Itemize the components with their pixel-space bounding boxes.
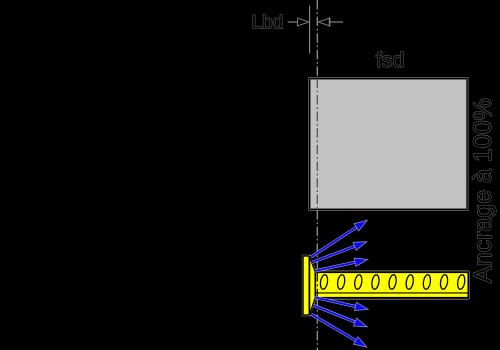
dimension arrowhead left xyxy=(298,18,310,26)
anchor cone halo xyxy=(309,255,316,271)
dimension arrowhead right xyxy=(318,18,329,26)
force arrow 5 head xyxy=(353,318,367,327)
rib coil 1 xyxy=(319,274,328,289)
force arrow 1 head xyxy=(354,220,367,231)
centerline (dash-dot axis) upper segment xyxy=(316,0,318,79)
force arrow 4 head xyxy=(355,302,369,310)
svg-text:Ancrage à 100%: Ancrage à 100% xyxy=(469,98,497,283)
force arrow 6 head xyxy=(354,337,367,347)
rib coil 8 xyxy=(440,274,449,289)
rebar inner line xyxy=(316,292,468,294)
rebar halo top xyxy=(316,270,469,272)
force arrow 2 shaft xyxy=(312,246,356,263)
centerline segment over block xyxy=(316,79,318,211)
rebar halo bottom xyxy=(316,298,469,300)
force arrow 3 head xyxy=(354,258,368,266)
rib coil 4 xyxy=(371,274,380,289)
force arrow 3 shaft xyxy=(315,262,357,271)
force arrow 1 shaft xyxy=(311,226,358,257)
dimension leader left xyxy=(288,21,299,23)
force arrow 2 head xyxy=(353,242,367,251)
anchor plate halo xyxy=(302,255,310,316)
centerline bottom segment xyxy=(316,298,318,350)
anchor plate xyxy=(303,256,309,315)
centerline segment below block xyxy=(316,210,318,272)
centerline segment over bar xyxy=(316,272,318,297)
force arrow 5 shaft xyxy=(313,305,357,323)
rib coil 7 xyxy=(422,274,431,289)
svg-text:fsd: fsd xyxy=(376,48,405,72)
anchor cone (trapezoid) xyxy=(310,256,316,315)
dimension tick right xyxy=(329,17,331,26)
rebar (yellow bar) xyxy=(315,272,468,297)
rib coil 3 xyxy=(354,274,363,289)
rebar halo end xyxy=(468,271,470,299)
rib coil 6 xyxy=(405,274,414,289)
svg-text:Lbd: Lbd xyxy=(252,13,284,34)
force arrow 6 shaft xyxy=(311,314,357,341)
force arrow 4 shaft xyxy=(315,297,358,307)
rib coil 5 xyxy=(388,274,397,289)
extension line (solid vertical at block edge) xyxy=(309,6,311,54)
dimension leader right xyxy=(330,21,343,23)
rib coil 9 xyxy=(457,274,466,289)
concrete block (stress rectangle) xyxy=(310,79,468,210)
rib coil 2 xyxy=(337,274,346,289)
